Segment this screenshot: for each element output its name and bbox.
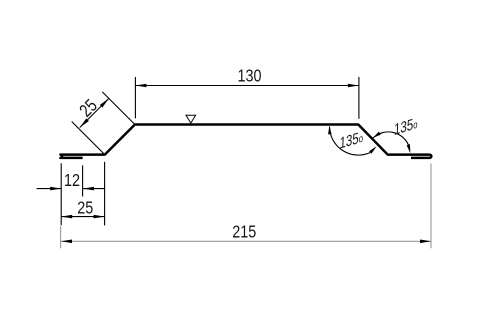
dimension 25 (bottom): right arrowhead	[94, 215, 105, 219]
dimension 12: left arrowhead (pointing right)	[50, 187, 61, 191]
angle 135 right: arc	[373, 132, 408, 145]
dimension 12: extension line 2	[82, 165, 84, 196]
dimension 25 (slope): value label	[76, 96, 101, 121]
dimension 12: value label	[64, 170, 80, 190]
angle 135 left: arrowhead at slope	[369, 146, 377, 154]
dimension 25 (bottom): extension line 3	[104, 162, 106, 226]
dimension 12: right outside tail	[83, 188, 105, 190]
angle 135 right: arrowhead at bottom flange	[407, 144, 411, 153]
dimension 25 (slope): extension line upper	[102, 92, 134, 124]
dimension 25 (slope): upper arrowhead	[100, 98, 109, 107]
dimension 12: extension line 1	[60, 163, 62, 225]
profile outline (sheet-metal cross-section with hemmed ends)	[60, 125, 431, 158]
dimension 130: right arrowhead	[348, 84, 359, 88]
dimension 215: dimension line (gray)	[61, 240, 431, 242]
dimension 25 (bottom): dimension line	[61, 216, 104, 218]
dimension 215: value label	[232, 222, 256, 242]
dimension 130: extension line left	[134, 77, 136, 118]
dimension 130: extension line right	[358, 77, 360, 119]
angle 135 right: arrowhead at slope	[373, 132, 381, 138]
angle 135 right: value label	[394, 114, 418, 139]
dimension 215: right arrowhead	[420, 240, 431, 244]
dimension 25 (slope): dimension line	[80, 98, 109, 127]
angle 135 left: arc	[330, 127, 371, 156]
dimension 130: dimension line	[135, 85, 359, 87]
angle 135 left: value label	[339, 127, 363, 152]
dimension 12: left outside tail	[37, 188, 62, 190]
dimension 130: left arrowhead	[135, 84, 146, 88]
dimension 25 (bottom): value label	[77, 198, 93, 218]
dimension 25 (slope): extension line lower	[72, 122, 104, 154]
dimension 25 (slope): lower arrowhead	[80, 118, 89, 127]
svg-text:12: 12	[64, 170, 80, 190]
svg-text:215: 215	[232, 222, 256, 242]
datum triangle marker on top flange	[186, 115, 196, 123]
dimension 25 (bottom): left arrowhead	[61, 215, 72, 219]
angle 135 left: arrowhead at flange	[328, 126, 332, 135]
dimension 12: right arrowhead (pointing left)	[83, 187, 94, 191]
dimension 215: extension line right (gray)	[430, 164, 432, 249]
svg-text:130: 130	[237, 66, 261, 86]
svg-text:25: 25	[77, 198, 93, 218]
dimension 215: left arrowhead	[61, 240, 72, 244]
dimension 215: extension line left (gray)	[60, 226, 62, 249]
dimension 130: value label	[237, 66, 261, 86]
